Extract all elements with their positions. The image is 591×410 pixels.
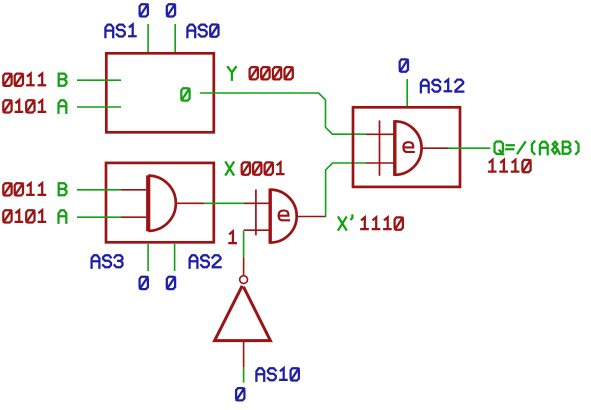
label Y	[228, 67, 236, 80]
xor gate U4 shape	[379, 120, 381, 175]
label value 0101	[3, 100, 45, 112]
label B	[59, 74, 67, 86]
label A (U2)	[59, 210, 67, 223]
wire Q	[449, 147, 491, 149]
label value 1 on U3 pin	[229, 231, 235, 243]
letter e in U4	[403, 142, 413, 152]
wire A to U1	[77, 106, 121, 108]
wire A to U2	[77, 216, 121, 218]
wire Y from U1 output	[200, 93, 366, 134]
label value 0011 (U2)	[3, 183, 45, 195]
U2 input pins	[121, 190, 146, 217]
wire AS12 select	[406, 79, 408, 106]
label value 1110 (Xprime)	[361, 217, 403, 229]
label AS10	[256, 368, 299, 381]
label value 0 on AS2	[167, 277, 175, 289]
label Q=/(A&B)	[495, 142, 579, 155]
label AS2	[190, 255, 221, 268]
label value 0 inside U1	[181, 88, 189, 100]
U2 output pin	[176, 202, 204, 204]
label value 1110 (Q)	[489, 160, 531, 172]
label value 0 on AS1	[140, 4, 148, 16]
inverter U5 bubble	[240, 276, 248, 284]
label value 0 on AS12	[400, 59, 408, 71]
label B (U2)	[59, 183, 67, 195]
U4 output pin	[422, 147, 449, 149]
letter e in U3	[279, 211, 289, 221]
U3 input pins	[244, 203, 269, 230]
label AS3	[92, 255, 123, 268]
gate U4 body box	[353, 107, 460, 187]
label Xprime	[339, 216, 353, 230]
wire AS0 select	[174, 24, 176, 52]
inverter U5 triangle	[215, 286, 271, 341]
mux U1 body	[106, 53, 214, 132]
label value 0 on AS0	[167, 4, 175, 16]
label value 0 on AS3	[140, 277, 148, 289]
wire from U3 lower pin to inverter	[243, 231, 245, 257]
U3 output pin	[297, 216, 326, 218]
wire AS3 select	[147, 244, 149, 271]
wire B to U1	[77, 79, 121, 81]
wire Xprime	[326, 163, 366, 217]
label AS0	[187, 25, 218, 38]
inverter U5 pin stub	[243, 257, 245, 275]
label value 0101 (U2)	[3, 210, 45, 222]
label X	[226, 162, 234, 174]
label value 0001	[242, 162, 284, 174]
wire AS2 select	[174, 244, 176, 271]
wire B to U2	[77, 189, 121, 191]
U5 bottom pin	[243, 341, 245, 367]
AND gate U2 body box	[106, 163, 214, 242]
label A	[59, 100, 67, 113]
label value 0000	[250, 67, 293, 79]
label value 0011	[3, 74, 45, 86]
wire AS10	[243, 367, 245, 383]
AND gate U2 shape	[146, 175, 150, 231]
wire X	[204, 202, 244, 204]
U4 input pins	[366, 134, 394, 163]
label AS12	[421, 80, 463, 93]
label AS1	[105, 24, 135, 37]
label value 0 on AS10	[236, 388, 244, 400]
wire AS1 select	[147, 24, 149, 52]
xor gate U3	[255, 190, 257, 236]
